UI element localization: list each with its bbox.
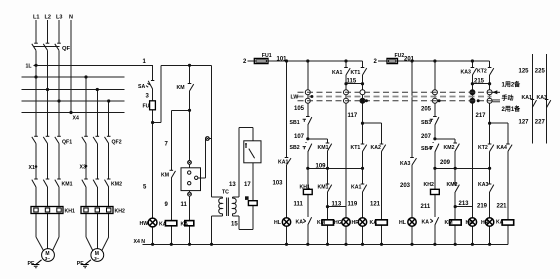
- bracket dot left g1: [344, 82, 347, 85]
- svg-text:KA3: KA3: [537, 95, 547, 101]
- bus109 left dot g2: [433, 167, 436, 170]
- branch1 wire pole 1 QF1-KM1: [35, 144, 37, 180]
- branch1 pole3 slant: [53, 237, 60, 251]
- junction N bus x211.5: [210, 243, 213, 246]
- junction N bus right x362.5: [361, 243, 364, 246]
- KA contact col top g1: [345, 61, 347, 68]
- lamp HL g1: [282, 218, 290, 226]
- junction N bus right x472.4: [471, 243, 474, 246]
- bus X4 N control: [142, 243, 508, 245]
- contact KA-NC bottom g1: [308, 217, 312, 225]
- wire L1 below QF: [35, 50, 37, 136]
- svg-text:SB2: SB2: [290, 145, 300, 151]
- svg-text:KM1: KM1: [318, 145, 329, 151]
- branch2 pole2 to motor: [96, 214, 98, 249]
- box bottom to pin: [189, 191, 191, 193]
- junction N bus right x434.9: [433, 243, 436, 246]
- svg-text:HR: HR: [352, 220, 360, 226]
- svg-text:9: 9: [165, 202, 169, 208]
- svg-text:X1: X1: [29, 165, 35, 171]
- svg-text:KH2: KH2: [115, 209, 125, 215]
- wire KM aux bottom: [189, 91, 191, 161]
- svg-text:KH1: KH1: [300, 185, 310, 191]
- wire 113 g2: [454, 192, 456, 220]
- breaker QF pole 1: [32, 44, 36, 51]
- svg-text:X4 N: X4 N: [134, 239, 146, 245]
- lamp to bus g1: [286, 226, 288, 244]
- wire L2 below QF: [47, 50, 49, 136]
- svg-text:1L: 1L: [26, 64, 33, 70]
- svg-text:L3: L3: [56, 15, 62, 21]
- svg-text:HG: HG: [334, 220, 342, 226]
- breaker QF1 pole 1: [32, 137, 36, 144]
- bus 109 g1: [308, 167, 363, 169]
- svg-text:KM1: KM1: [318, 185, 329, 191]
- lamp HR g1: [358, 218, 366, 226]
- branch1 pole1 slant: [36, 237, 44, 251]
- svg-text:205: 205: [421, 107, 432, 113]
- breaker QF2 pole 1: [82, 137, 86, 144]
- rail junction g1 x307.8: [306, 59, 309, 62]
- branch2 wire pole 2 QF2-KM2: [96, 144, 98, 180]
- KM aux to 109bus g1: [327, 151, 329, 168]
- junction N bus x152.6: [151, 243, 154, 246]
- link to riser: [153, 122, 162, 124]
- wire 119 g2: [489, 192, 491, 218]
- branch1 wire pole 3 QF1-KM1: [58, 144, 60, 180]
- wire L1 incoming: [35, 20, 37, 43]
- selector circle B row2 g2: [487, 98, 492, 103]
- pin wire into box: [189, 164, 191, 168]
- KM aux top g1: [327, 139, 329, 143]
- selector pos dot 4: [477, 99, 480, 102]
- contact KT2: [490, 145, 494, 152]
- col B circles mid g2: [489, 95, 491, 99]
- wire to node g1: [307, 125, 309, 139]
- contactor KM1 pole 1: [32, 180, 36, 187]
- link 107 to KM aux g1: [308, 138, 328, 140]
- rail end drop g1: [362, 61, 364, 68]
- branch1 pole2 to motor: [47, 214, 49, 249]
- motor M2: [91, 249, 104, 262]
- svg-text:KT2: KT2: [478, 145, 488, 151]
- selector col top g2: [434, 61, 436, 90]
- main col lower g2: [411, 165, 413, 218]
- lamp HW to N bus: [152, 227, 154, 244]
- svg-text:LW: LW: [291, 95, 299, 101]
- svg-text:PE: PE: [77, 261, 84, 267]
- col B to KT g2: [489, 123, 491, 144]
- branch1 wire pole 2 QF1-KM1: [47, 144, 49, 180]
- svg-text:PE: PE: [28, 261, 35, 267]
- branch2 pole1 from H2: [85, 77, 87, 136]
- branch2 pole1 slant: [86, 237, 93, 251]
- svg-text:KM1: KM1: [62, 182, 73, 188]
- svg-text:1用2备: 1用2备: [502, 81, 522, 89]
- node 113 g1: [326, 205, 329, 208]
- control rail 2: [161, 64, 211, 66]
- svg-text:113: 113: [332, 202, 342, 208]
- svg-text:FU2: FU2: [395, 53, 405, 59]
- svg-text:215: 215: [474, 79, 485, 85]
- svg-text:KM: KM: [177, 85, 185, 91]
- branch2 pole3 from H4: [108, 101, 110, 136]
- selector col mid g2: [434, 95, 436, 99]
- svg-text:L2: L2: [45, 15, 51, 21]
- contactor coil KM1: [322, 220, 334, 225]
- col B to KT g1: [362, 123, 364, 144]
- branch1 wire pole 1 KM1-KH1: [35, 187, 37, 207]
- junction N bus x189.5: [188, 243, 191, 246]
- wire 117 g2: [489, 103, 491, 123]
- wire 102 main g2: [411, 61, 413, 158]
- junction N bus right x381.5: [380, 243, 383, 246]
- TC secondary top stub: [232, 197, 234, 198]
- selector col mid g1: [307, 95, 309, 99]
- terminal circle top pin: [188, 161, 192, 165]
- rail end drop g2: [489, 61, 491, 68]
- svg-text:2: 2: [243, 59, 247, 65]
- selector col to SB g1: [307, 103, 309, 116]
- svg-text:QF: QF: [62, 46, 71, 52]
- svg-text:HL: HL: [399, 220, 407, 226]
- svg-text:FU: FU: [143, 104, 150, 110]
- wire 119 g1: [362, 192, 364, 218]
- contact KM2 aux: [455, 144, 459, 151]
- svg-text:121: 121: [370, 202, 381, 208]
- secondary loop bottom: [239, 228, 253, 230]
- svg-text:KA2: KA2: [371, 145, 381, 151]
- terminal X1: [35, 165, 38, 168]
- svg-text:TC: TC: [222, 190, 229, 196]
- lamp HR to bus g1: [362, 226, 364, 244]
- svg-text:KA3: KA3: [478, 182, 488, 188]
- col B to circles g1: [362, 84, 364, 90]
- KM aux to 109bus g2: [454, 151, 456, 168]
- branch2 pole3 to motor: [108, 214, 110, 238]
- svg-text:101: 101: [277, 57, 288, 63]
- svg-text:111: 111: [294, 202, 304, 208]
- wire 13 riser: [238, 127, 240, 197]
- wire 7 link: [171, 109, 189, 111]
- bracket 115 g1: [346, 83, 363, 85]
- KA contact col top g2: [471, 61, 473, 68]
- svg-text:227: 227: [535, 120, 546, 126]
- svg-text:201: 201: [404, 57, 415, 63]
- wire 5 below FU: [152, 110, 154, 218]
- wire 109bus to KM NC g2: [454, 168, 456, 184]
- svg-text:225: 225: [535, 69, 546, 75]
- KT to 109bus g1: [362, 152, 364, 169]
- breaker QF pole 3: [55, 44, 59, 51]
- contact KA-a g2: [472, 68, 476, 75]
- bus H4: [22, 100, 125, 102]
- junction N bus right x455.2: [454, 243, 457, 246]
- col B circles mid g1: [362, 95, 364, 99]
- contact KA3 far right: [547, 100, 551, 107]
- svg-text:221: 221: [497, 204, 508, 210]
- KA-b to bracket g2: [489, 75, 491, 84]
- contact KA-a g1: [346, 68, 350, 75]
- node 107 g2: [433, 137, 436, 140]
- rail junction g2 x412: [410, 59, 413, 62]
- svg-text:119: 119: [348, 202, 358, 208]
- svg-text:203: 203: [400, 183, 411, 189]
- lamp HG g1: [342, 218, 350, 226]
- KT to 109bus g2: [489, 152, 491, 169]
- lamp HG g2: [468, 218, 476, 226]
- coil KM to bus g2: [454, 225, 456, 244]
- svg-text:KA: KA: [181, 222, 189, 228]
- junction L1-H2: [34, 75, 37, 78]
- coil KA to bus g2: [507, 225, 509, 244]
- lamp to bus g2: [411, 226, 413, 244]
- svg-text:211: 211: [421, 204, 431, 210]
- rail2 drop to TC: [211, 65, 213, 197]
- svg-text:KM2: KM2: [111, 182, 122, 188]
- junction H4-branch2: [107, 99, 110, 102]
- rail junction g2 x434.9: [433, 59, 436, 62]
- coil KM to bus g1: [327, 225, 329, 244]
- svg-text:SA: SA: [138, 84, 145, 90]
- pushbutton stop SB g1: [308, 117, 312, 125]
- wire 15 drop: [252, 206, 254, 230]
- contact KA-2nd g1: [363, 185, 367, 192]
- wire SB to 109bus g2: [434, 152, 436, 168]
- junction N bus x171.3: [170, 243, 173, 246]
- contactor KM2 pole 2: [93, 180, 97, 187]
- QF link bar: [34, 46, 60, 48]
- selector circle S row2 g2: [432, 98, 437, 103]
- branch1 wire pole 3 KM1-KH1: [58, 187, 60, 207]
- TC secondary bottom stub: [232, 214, 234, 217]
- wire L3 below QF: [58, 50, 60, 136]
- svg-text:KT1: KT1: [351, 70, 361, 76]
- svg-text:103: 103: [273, 181, 284, 187]
- contactor KM1 pole 2: [43, 180, 47, 187]
- coil KA to bus g1: [381, 225, 383, 244]
- selector handle arrow: [493, 91, 501, 93]
- wire 113 g1: [327, 192, 329, 220]
- wire 9 coil to bus: [170, 226, 172, 245]
- col C top g2: [507, 123, 509, 144]
- bus H3: [22, 89, 125, 91]
- fuse FU: [150, 101, 156, 110]
- coil on wire 11: [185, 221, 194, 226]
- svg-text:209: 209: [440, 160, 451, 166]
- lamp HR g2: [485, 218, 493, 226]
- bracket dot right g2: [488, 82, 491, 85]
- lamp HR to bus g2: [489, 226, 491, 244]
- wire KH top g1: [307, 168, 309, 189]
- contact KM aux: [190, 84, 194, 91]
- rail junction g1 x286.5: [285, 59, 288, 62]
- svg-text:KM2: KM2: [447, 182, 458, 188]
- svg-text:X4: X4: [73, 116, 79, 122]
- svg-text:KT2: KT2: [477, 69, 487, 75]
- wire 125 column: [531, 54, 533, 144]
- svg-text:127: 127: [519, 120, 530, 126]
- selector circle S row1 g1: [305, 90, 310, 95]
- bracket dot left g2: [471, 82, 474, 85]
- contact KT1: [363, 145, 367, 152]
- svg-text:SB4: SB4: [421, 146, 431, 152]
- junction wire7 tee: [188, 109, 191, 112]
- lamp HG to bus g2: [471, 226, 473, 244]
- switch SA: [148, 81, 152, 89]
- branch2 pole1 to motor: [85, 214, 87, 238]
- selector circle S row1 g2: [432, 90, 437, 95]
- svg-text:KA1: KA1: [351, 185, 361, 191]
- bus 1L (wire 1): [34, 64, 153, 66]
- svg-text:KA: KA: [370, 220, 378, 226]
- wire L2 incoming: [47, 20, 49, 43]
- contactor coil KM2: [450, 220, 462, 225]
- svg-text:125: 125: [519, 69, 530, 75]
- wire 1 drop to SA: [152, 65, 154, 80]
- KA-a to bracket g2: [471, 75, 473, 84]
- link 117 g1: [363, 122, 382, 124]
- TC primary top link: [212, 196, 223, 198]
- bus109 K dot g1: [326, 167, 329, 170]
- junction rail2-KM: [188, 64, 191, 67]
- bus X4 neutral: [22, 112, 125, 114]
- link 117 g2: [490, 122, 508, 124]
- svg-text:KT1: KT1: [351, 145, 361, 151]
- link 113 to lamp g2: [455, 206, 472, 208]
- junction L1-1L: [34, 64, 37, 67]
- svg-text:2: 2: [374, 59, 378, 65]
- wire KM aux top: [189, 65, 191, 83]
- col A circles mid g2: [471, 95, 473, 99]
- selector col top g1: [307, 61, 309, 90]
- contact KA on main g1: [287, 158, 292, 165]
- branch2 wire pole 1 QF2-KM2: [85, 144, 87, 180]
- wire 17: [252, 163, 254, 201]
- terminal circle stub: [206, 137, 210, 141]
- selector circle A row2 g2: [470, 98, 475, 103]
- overload relay KH1: [31, 207, 63, 214]
- svg-text:3~: 3~: [45, 256, 51, 261]
- svg-text:109: 109: [316, 164, 327, 170]
- svg-text:17: 17: [244, 182, 251, 188]
- wire 2 stub g1: [248, 60, 255, 62]
- contact KA on main g2: [412, 158, 417, 165]
- selector circle B row1 g1: [360, 90, 365, 95]
- contact KA-NC bottom g2: [435, 217, 439, 225]
- wire to bus KH col g2: [434, 225, 436, 244]
- ground PE motor1: [36, 260, 42, 265]
- overload contact KH1: [303, 189, 312, 194]
- KA-b to bracket g1: [362, 75, 364, 84]
- wire 121 g1: [381, 152, 383, 220]
- svg-text:KA3: KA3: [461, 70, 471, 76]
- 109bus to KA2nd g2: [489, 168, 491, 184]
- wire 112: [434, 195, 436, 218]
- col A to circles g2: [471, 84, 473, 90]
- selector circle B row1 g2: [487, 90, 492, 95]
- wire 109bus to KM NC g1: [327, 168, 329, 184]
- contact KM2 NC: [455, 185, 459, 192]
- branch2 pole2 from H3: [96, 90, 98, 137]
- lamp HL g2: [408, 218, 416, 226]
- riser to rail2: [160, 65, 162, 122]
- terminal X3: [85, 165, 88, 168]
- contact KA4 g2: [508, 145, 512, 152]
- control rail g1: [268, 60, 363, 62]
- col B to circles g2: [489, 84, 491, 90]
- svg-text:7: 7: [165, 142, 169, 148]
- svg-text:HR: HR: [481, 220, 489, 226]
- svg-text:HW: HW: [140, 221, 149, 227]
- svg-text:KM: KM: [161, 173, 169, 179]
- node 107 g1: [306, 137, 309, 140]
- wire FU through: [152, 101, 154, 110]
- selector circle A row1 g2: [470, 90, 475, 95]
- svg-text:N: N: [69, 15, 73, 21]
- relay box KM: [181, 168, 201, 191]
- branch2 pole3 slant: [102, 237, 109, 251]
- svg-text:2用1备: 2用1备: [502, 105, 522, 113]
- wire 117 g1: [362, 103, 364, 123]
- svg-text:107: 107: [294, 134, 305, 140]
- svg-text:KA: KA: [159, 222, 167, 228]
- contact KA-2nd g2: [490, 185, 494, 192]
- box right riser: [205, 139, 207, 178]
- junction N bus right x489.6: [488, 243, 491, 246]
- svg-text:QF1: QF1: [62, 140, 72, 146]
- box right pin wire: [198, 177, 206, 179]
- junction N bus right x412: [410, 243, 413, 246]
- svg-text:217: 217: [476, 113, 487, 119]
- junction H3-branch2: [96, 88, 99, 91]
- svg-text:11: 11: [181, 202, 188, 208]
- contact KM1 aux: [328, 144, 332, 151]
- wire KH top g2: [434, 168, 436, 189]
- svg-text:KA3: KA3: [400, 161, 410, 167]
- transformer TC secondary coil: [233, 198, 237, 214]
- junction L2-H3: [46, 88, 49, 91]
- col A lamp feed g1: [345, 103, 347, 218]
- junction N-X4: [69, 111, 72, 114]
- branch1 wire pole 2 KM1-KH1: [47, 187, 49, 207]
- svg-text:3~: 3~: [94, 256, 100, 261]
- junction N bus right x346: [344, 243, 347, 246]
- svg-text:KA: KA: [496, 220, 504, 226]
- selector circle S row2 g1: [305, 98, 310, 103]
- wire to bus KH col g1: [307, 225, 309, 244]
- contactor KM2 pole 1: [82, 180, 86, 187]
- svg-text:HL: HL: [274, 220, 282, 226]
- rail junction g1 x346: [344, 59, 347, 62]
- svg-text:HG: HG: [466, 220, 474, 226]
- wire 2 stub g2: [378, 60, 387, 62]
- wire 9: [170, 178, 172, 220]
- TC secondary bottom link: [233, 215, 239, 217]
- contact KA4 g1: [382, 145, 386, 152]
- bracket 115 g2: [472, 83, 489, 85]
- wire 121 g2: [507, 152, 509, 220]
- svg-text:SB1: SB1: [290, 120, 300, 126]
- svg-text:KH2: KH2: [424, 182, 434, 188]
- stub to rail drop: [206, 138, 212, 140]
- svg-text:KH1: KH1: [65, 209, 75, 215]
- contact KA-b g2: [490, 68, 494, 75]
- ground PE motor2: [85, 260, 91, 265]
- svg-text:KA: KA: [422, 220, 430, 226]
- contactor KM2 pole 3: [105, 180, 109, 187]
- contact KA1 far right: [532, 100, 536, 107]
